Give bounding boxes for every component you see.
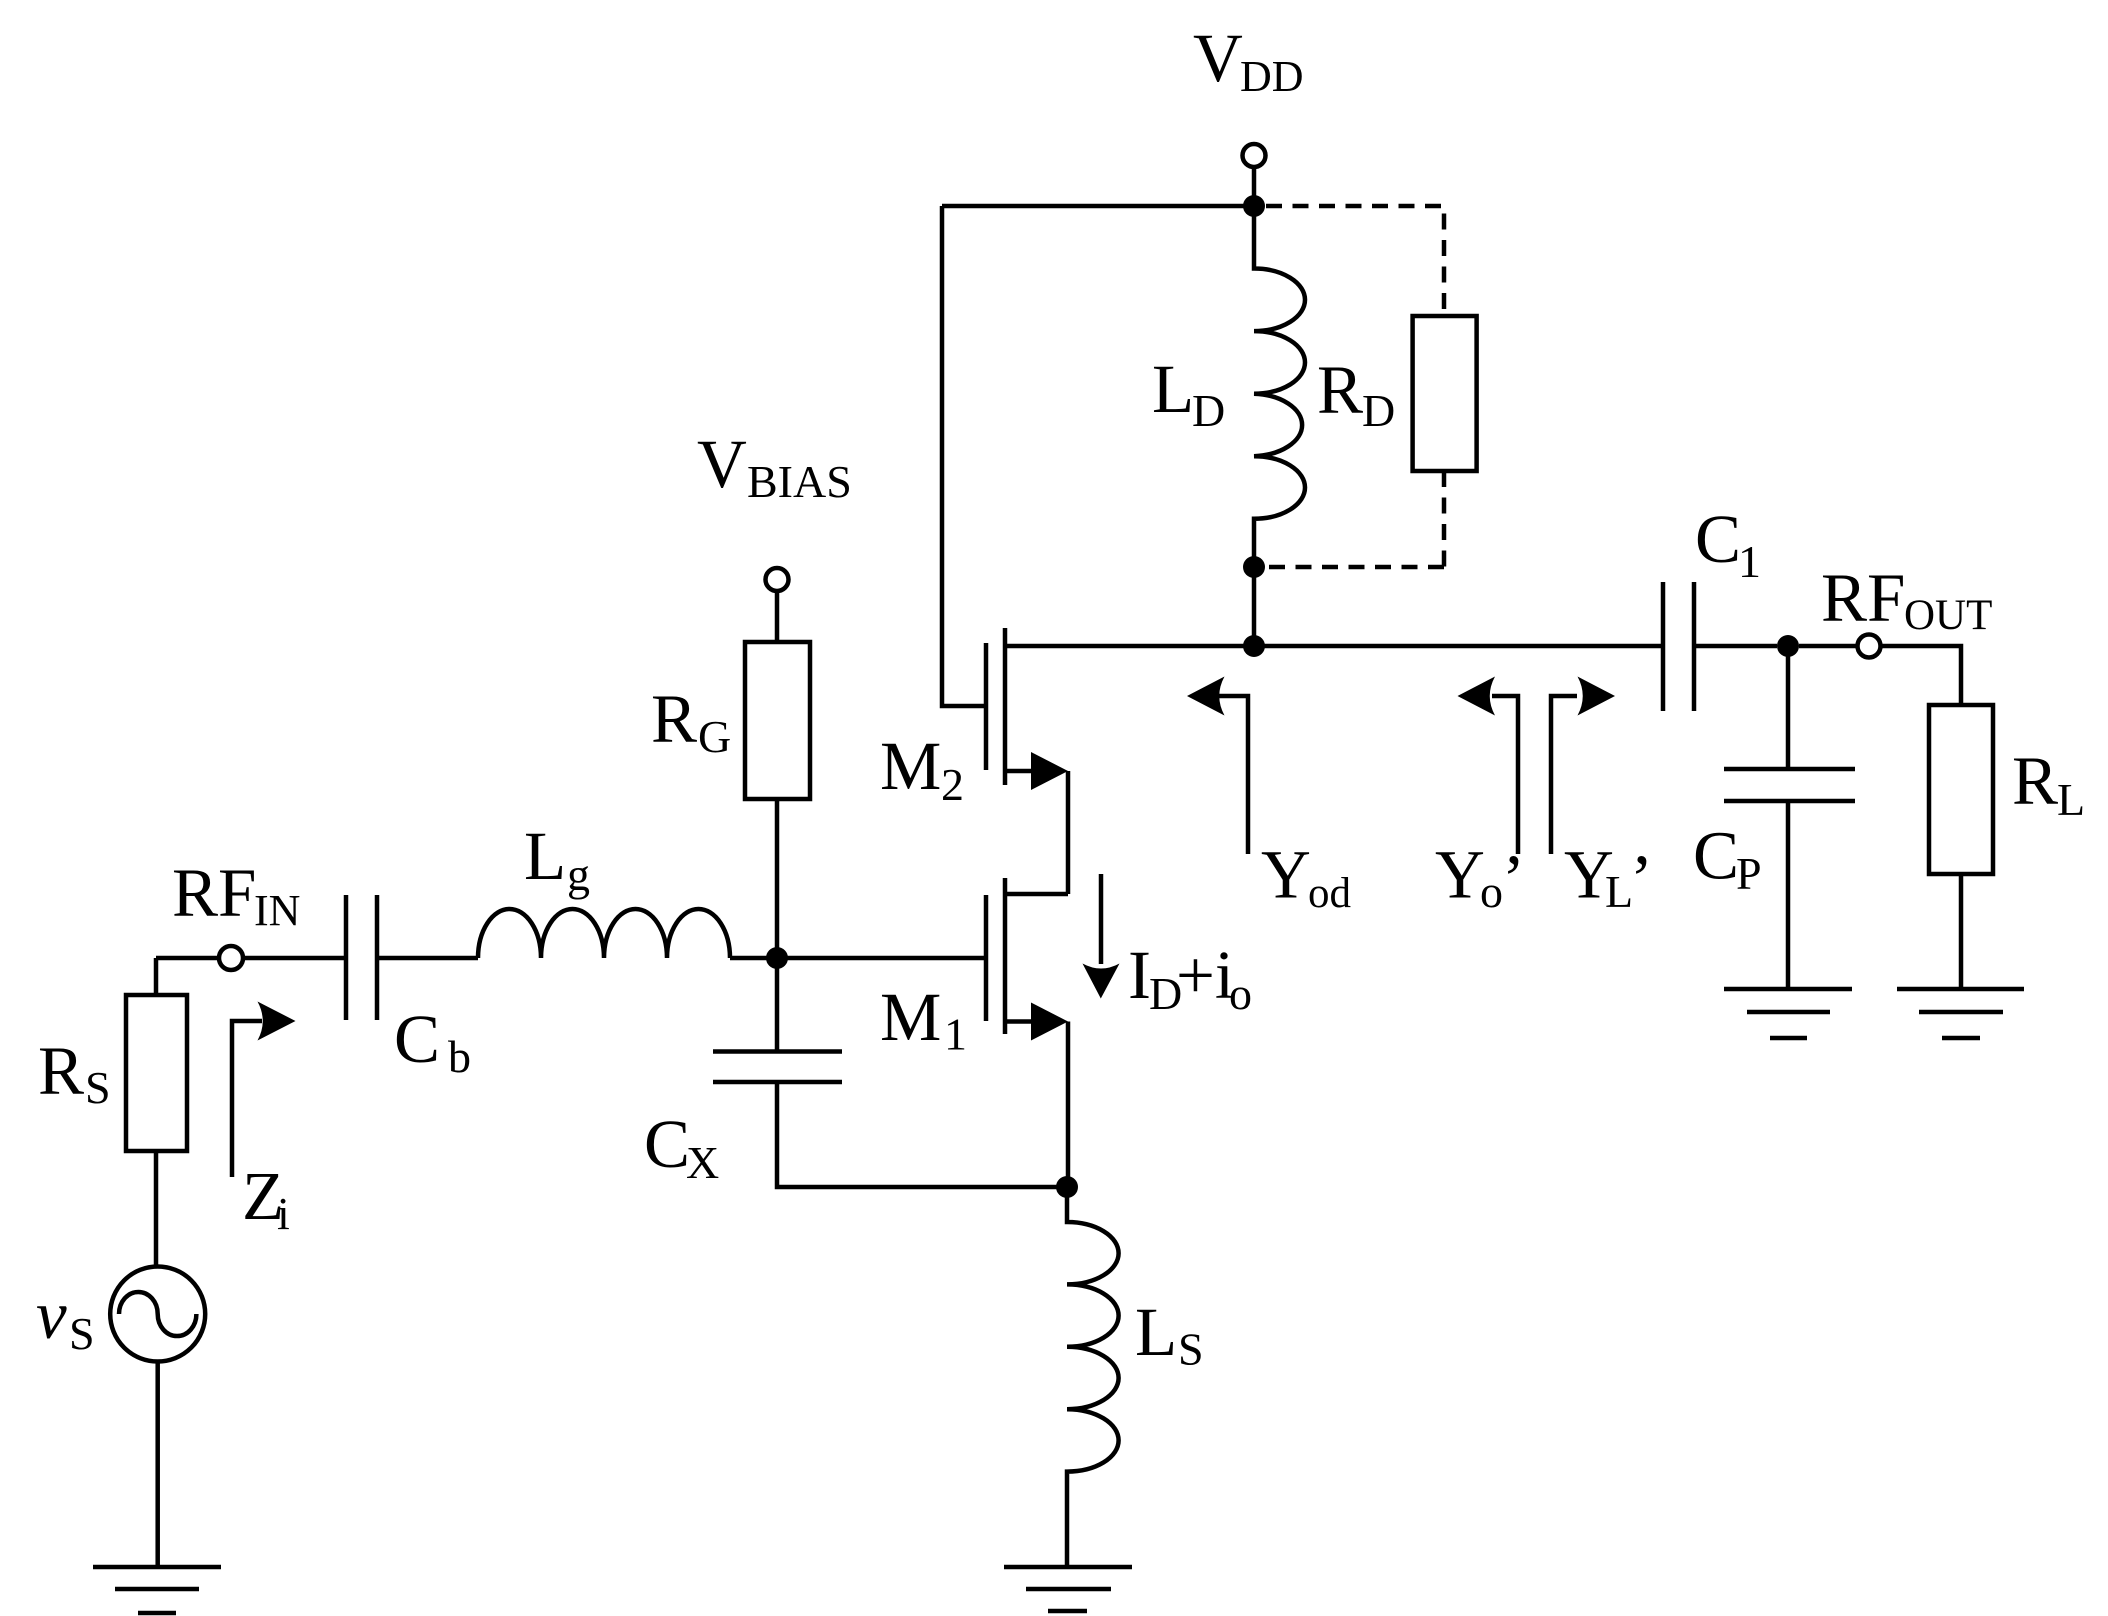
capacitor Cb — [346, 895, 377, 1020]
svg-text:R: R — [38, 1033, 84, 1109]
ground RL — [1897, 989, 2024, 1038]
terminal RF_OUT — [1858, 635, 1881, 658]
svg-text:G: G — [698, 711, 731, 762]
svg-text:o: o — [1229, 968, 1252, 1019]
svg-text:R: R — [2012, 743, 2058, 819]
svg-text:’: ’ — [1502, 841, 1525, 917]
wire C1 to RFOUT — [1694, 646, 1961, 705]
svg-text:P: P — [1736, 848, 1762, 899]
svg-text:C: C — [1695, 501, 1741, 577]
svg-text:IN: IN — [254, 886, 300, 935]
node drain — [1243, 635, 1265, 657]
svg-text:L: L — [524, 818, 566, 894]
capacitor CP — [1724, 646, 1855, 989]
svg-text:V: V — [697, 426, 747, 502]
node gate — [766, 947, 788, 969]
resistor RG — [745, 642, 810, 799]
dashed connector RD — [1266, 206, 1444, 567]
svg-text:I: I — [1128, 937, 1151, 1013]
svg-text:’: ’ — [1630, 841, 1653, 917]
wire top rail — [942, 204, 1254, 209]
inductor LD — [1254, 206, 1305, 567]
svg-text:RF: RF — [172, 855, 256, 931]
svg-text:Y: Y — [1435, 837, 1485, 913]
svg-text:M: M — [880, 979, 941, 1055]
svg-text:L: L — [1605, 866, 1633, 917]
svg-text:S: S — [85, 1062, 111, 1113]
node out — [1777, 635, 1799, 657]
svg-text:i: i — [277, 1188, 290, 1239]
ground CP — [1724, 989, 1852, 1038]
wire input rail — [156, 956, 777, 961]
svg-text:D: D — [1362, 385, 1395, 436]
svg-text:v: v — [36, 1277, 67, 1353]
svg-text:S: S — [69, 1308, 95, 1359]
svg-text:C: C — [394, 1001, 440, 1077]
svg-text:g: g — [567, 849, 590, 900]
resistor RD — [1413, 316, 1477, 471]
wire M2 gate to VDD — [942, 206, 986, 706]
svg-text:C: C — [644, 1106, 690, 1182]
svg-text:L: L — [2057, 774, 2085, 825]
capacitor CX — [713, 958, 1067, 1187]
arrow Yod — [1216, 696, 1248, 854]
node LD bottom — [1243, 556, 1265, 578]
svg-text:Y: Y — [1261, 837, 1311, 913]
svg-text:X: X — [686, 1137, 719, 1188]
arrow Zi — [232, 1021, 262, 1177]
svg-text:M: M — [880, 728, 941, 804]
ground vS — [93, 1567, 221, 1613]
resistor RL — [1929, 705, 1993, 874]
svg-text:L: L — [1152, 351, 1194, 427]
ground LS — [1004, 1567, 1132, 1611]
svg-text:S: S — [1178, 1324, 1204, 1375]
inductor Lg — [478, 909, 730, 958]
node VDD — [1243, 195, 1265, 217]
svg-text:2: 2 — [941, 759, 964, 810]
capacitor C1 — [1663, 582, 1694, 711]
arrow Yo' — [1492, 696, 1518, 854]
svg-text:D: D — [1192, 385, 1225, 436]
svg-text:V: V — [1193, 20, 1243, 96]
svg-text:OUT: OUT — [1904, 592, 1992, 639]
svg-text:b: b — [448, 1031, 471, 1082]
svg-text:C: C — [1693, 818, 1739, 894]
svg-text:+i: +i — [1176, 937, 1234, 1013]
svg-text:BIAS: BIAS — [747, 456, 852, 507]
node source — [1056, 1176, 1078, 1198]
terminal RF_IN — [219, 946, 243, 970]
terminal VDD — [1243, 144, 1266, 167]
arrow YL' — [1551, 696, 1577, 854]
svg-text:R: R — [651, 681, 697, 757]
svg-text:R: R — [1317, 352, 1363, 428]
inductor LS — [1067, 1187, 1119, 1567]
resistor RS — [126, 995, 187, 1151]
source vS — [110, 1267, 205, 1362]
svg-text:od: od — [1308, 870, 1351, 917]
svg-text:o: o — [1480, 866, 1503, 917]
arrow ID current — [1099, 874, 1104, 964]
wire left branch down — [156, 958, 158, 1567]
svg-text:L: L — [1135, 1294, 1177, 1370]
svg-text:1: 1 — [1738, 536, 1761, 587]
svg-text:DD: DD — [1240, 52, 1304, 101]
wire LD to drain — [1252, 567, 1257, 646]
wire output rail — [1005, 644, 1663, 649]
terminal VBIAS — [766, 568, 789, 591]
transistor M2 — [984, 643, 989, 770]
svg-text:1: 1 — [944, 1009, 967, 1060]
svg-text:RF: RF — [1821, 560, 1905, 636]
transistor M1 — [1005, 892, 1068, 897]
wire RG down — [775, 591, 780, 958]
